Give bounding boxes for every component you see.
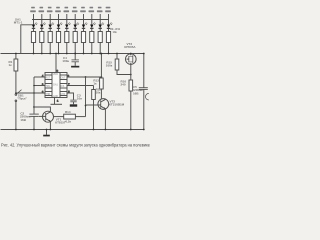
svg-text:OUT: OUT bbox=[61, 78, 66, 80]
resistor R12 bbox=[67, 86, 95, 131]
svg-text:100н: 100н bbox=[62, 59, 69, 63]
svg-text:1к: 1к bbox=[9, 63, 13, 67]
svg-text:VDD: VDD bbox=[53, 74, 58, 76]
ground bottom bbox=[43, 129, 50, 137]
wire IC VCC bbox=[55, 53, 57, 73]
label R2-R11 bbox=[110, 27, 121, 34]
LED HL6 branch bbox=[73, 14, 79, 54]
capacitor C2 bbox=[29, 114, 38, 130]
label R1 bbox=[9, 60, 13, 67]
label R16 bbox=[121, 80, 127, 87]
svg-text:10к: 10к bbox=[113, 30, 118, 34]
LED HL10 branch bbox=[106, 14, 112, 54]
op-amp U1 timer IC bbox=[45, 73, 67, 98]
svg-text:DIS: DIS bbox=[61, 86, 65, 88]
svg-text:10к: 10к bbox=[96, 91, 101, 95]
wire bottom bus bbox=[1, 129, 144, 131]
label C3 bbox=[77, 94, 82, 101]
switch SB1 bbox=[15, 90, 22, 131]
wire IC right pin row bbox=[67, 76, 102, 78]
wire vertical node x85 bbox=[85, 77, 87, 117]
svg-text:100к: 100к bbox=[106, 64, 113, 68]
LED HL7 branch bbox=[81, 14, 87, 54]
label R13 bbox=[93, 79, 99, 86]
label VT2 bbox=[109, 100, 125, 107]
svg-text:10н: 10н bbox=[77, 97, 82, 101]
resistor R1 bbox=[14, 53, 18, 93]
label SB1 bbox=[17, 94, 27, 101]
labels HL1-HL10 bbox=[30, 7, 111, 13]
label C2 bbox=[20, 112, 32, 122]
svg-text:R14: R14 bbox=[65, 110, 71, 114]
resistor R14 bbox=[54, 114, 86, 119]
capacitor C3 bbox=[67, 93, 77, 107]
capacitor C5 bbox=[139, 53, 148, 131]
IC pin numbers bbox=[42, 71, 70, 103]
svg-text:MT1-1: MT1-1 bbox=[14, 21, 23, 25]
svg-text:"Пуск": "Пуск" bbox=[17, 97, 27, 101]
label C5 bbox=[132, 85, 143, 95]
svg-text:CTR: CTR bbox=[61, 94, 66, 96]
connector arc right edge bbox=[146, 93, 149, 100]
resistor R13 bbox=[100, 53, 104, 100]
LED HL2 branch bbox=[40, 14, 46, 54]
svg-text:6,2к: 6,2к bbox=[65, 120, 71, 124]
LED HL5 branch bbox=[65, 14, 71, 54]
transistor VT2 bbox=[86, 99, 109, 131]
label C4 bbox=[62, 56, 69, 63]
ground IC bbox=[51, 98, 63, 105]
svg-text:240: 240 bbox=[121, 83, 126, 87]
IC pin labels bbox=[46, 74, 66, 98]
svg-text:КП505А: КП505А bbox=[124, 45, 136, 49]
svg-text:THR: THR bbox=[46, 94, 51, 96]
wire mid bus bbox=[1, 53, 144, 55]
label R15 bbox=[106, 61, 113, 68]
label VT3 bbox=[124, 42, 136, 49]
svg-text:RST: RST bbox=[46, 78, 51, 80]
svg-text:GND: GND bbox=[53, 96, 58, 98]
capacitor C4 bbox=[71, 53, 79, 68]
svg-text:Рис. 42. Улучшенный вариант сх: Рис. 42. Улучшенный вариант схемы модуля… bbox=[1, 143, 150, 148]
LED HL8 branch bbox=[90, 14, 96, 54]
svg-text:DA1: DA1 bbox=[53, 84, 58, 87]
wire trigger bbox=[15, 92, 45, 94]
switch SA1 wire bbox=[21, 25, 34, 54]
wire IC left pins to vertical bbox=[33, 77, 45, 114]
label VT1 bbox=[55, 118, 66, 125]
svg-text:16В: 16В bbox=[133, 91, 139, 95]
resistor R15 bbox=[115, 53, 132, 76]
label R12 bbox=[96, 88, 102, 95]
svg-text:16В: 16В bbox=[20, 118, 26, 122]
svg-text:TRG: TRG bbox=[46, 86, 51, 88]
label R14 bbox=[65, 110, 72, 124]
svg-text:КТ3102БМ: КТ3102БМ bbox=[109, 103, 125, 107]
svg-text:1к: 1к bbox=[93, 82, 97, 86]
transistor VT3 bbox=[126, 53, 137, 75]
LED HL4 branch bbox=[56, 14, 62, 54]
wire top bus bbox=[32, 19, 109, 21]
label SA1 bbox=[14, 18, 23, 25]
transistor VT1 bbox=[34, 107, 54, 130]
svg-text:КТ815Г: КТ815Г bbox=[55, 121, 66, 125]
LED HL9 branch bbox=[98, 14, 104, 54]
LED HL3 branch bbox=[48, 14, 54, 54]
resistor R16 bbox=[129, 75, 133, 131]
